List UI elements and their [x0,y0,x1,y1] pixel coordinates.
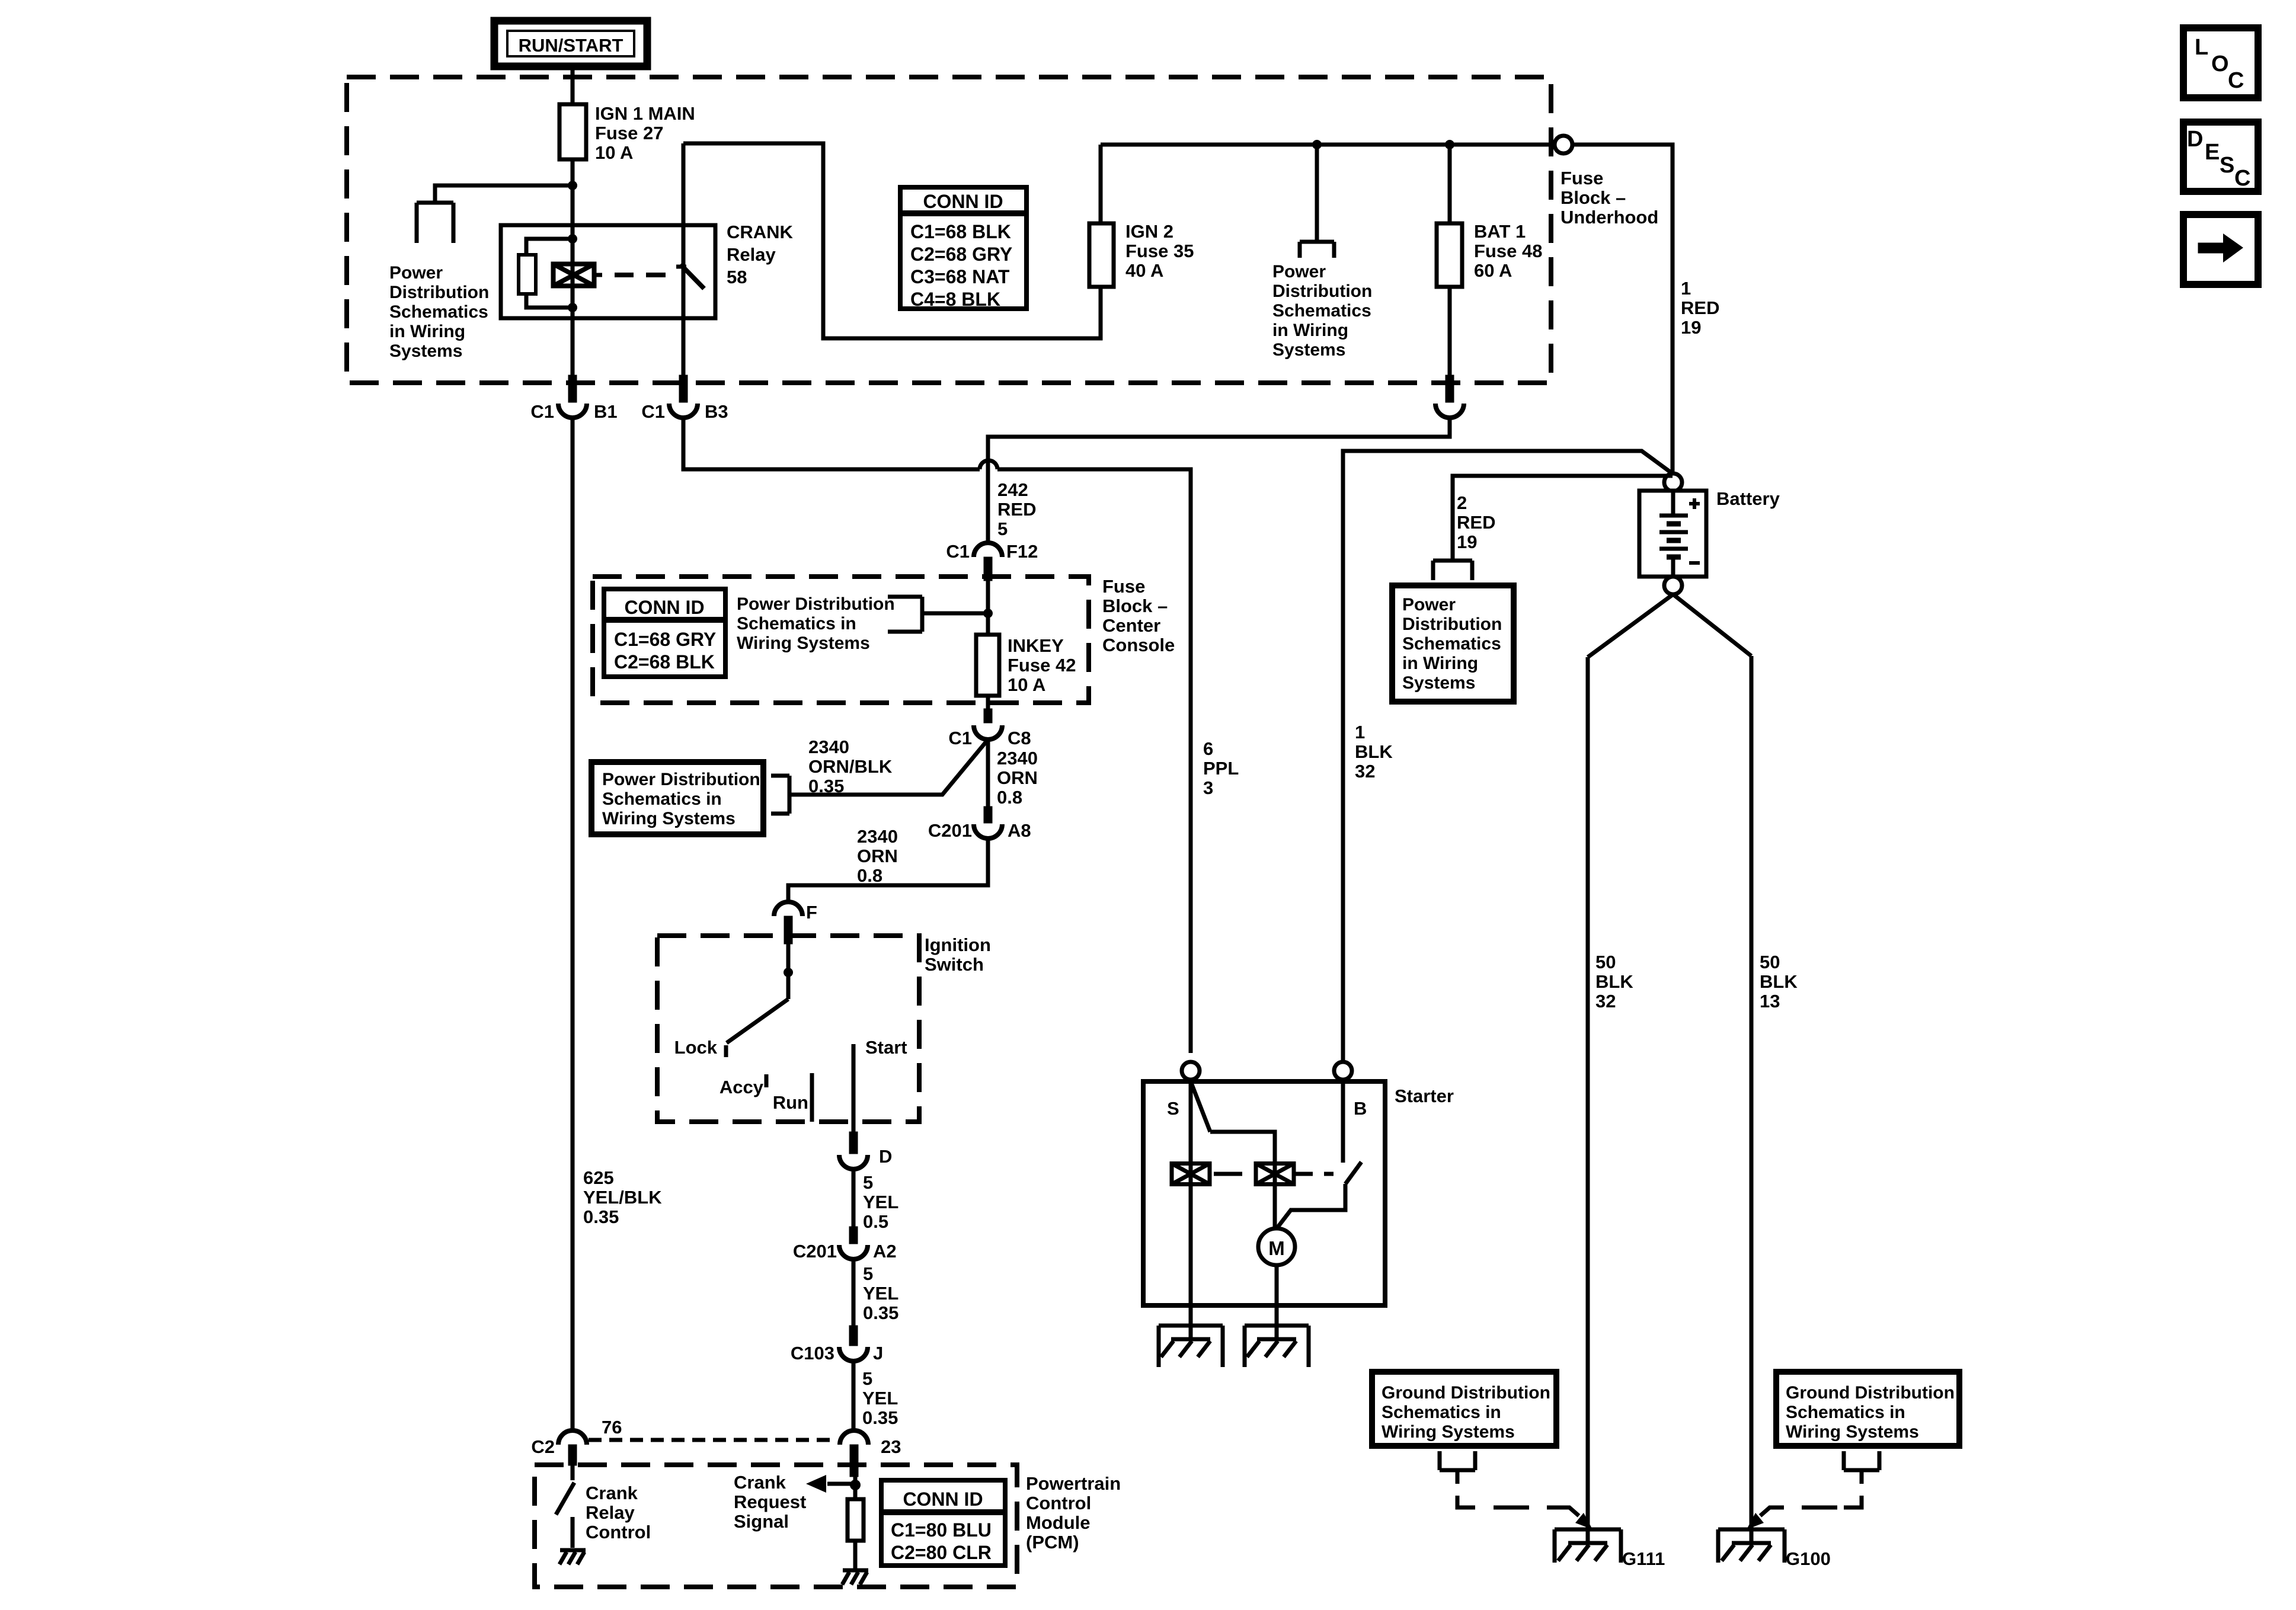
svg-text:13: 13 [1760,991,1780,1012]
svg-text:(PCM): (PCM) [1026,1532,1079,1553]
svg-text:2340: 2340 [857,826,898,847]
svg-text:BLK: BLK [1595,971,1633,992]
svg-text:Relay: Relay [586,1502,635,1523]
svg-text:E: E [2205,140,2220,165]
svg-text:in Wiring: in Wiring [1272,321,1348,340]
svg-text:0.8: 0.8 [857,865,882,886]
svg-text:PPL: PPL [1203,758,1239,779]
svg-text:D: D [879,1146,892,1167]
svg-text:58: 58 [727,267,747,287]
svg-text:CRANK: CRANK [727,222,794,242]
svg-text:Power: Power [1402,595,1456,614]
svg-text:Battery: Battery [1716,488,1780,509]
svg-text:6: 6 [1203,738,1213,759]
svg-text:L: L [2195,35,2208,60]
svg-text:0.8: 0.8 [997,787,1022,808]
svg-text:YEL: YEL [863,1283,898,1304]
svg-text:5: 5 [862,1368,872,1389]
svg-text:Distribution: Distribution [1272,281,1372,301]
svg-text:Fuse 27: Fuse 27 [595,123,663,143]
svg-text:Start: Start [865,1037,907,1058]
svg-text:YEL: YEL [862,1388,898,1409]
svg-text:C201: C201 [928,820,972,841]
svg-text:2340: 2340 [997,748,1038,769]
svg-text:S: S [2220,153,2234,178]
svg-text:CONN ID: CONN ID [923,191,1003,212]
svg-text:Schematics in: Schematics in [602,789,722,809]
svg-text:Schematics in: Schematics in [1786,1403,1905,1422]
svg-text:RED: RED [1681,297,1719,318]
svg-text:Switch: Switch [925,954,984,975]
svg-text:J: J [873,1343,883,1363]
svg-text:CONN ID: CONN ID [624,597,704,618]
svg-text:Ground Distribution: Ground Distribution [1382,1383,1550,1403]
svg-text:C1: C1 [948,728,972,748]
svg-text:ORN: ORN [857,846,898,866]
svg-text:0.35: 0.35 [862,1407,898,1428]
svg-text:Power: Power [389,263,443,283]
svg-text:C1: C1 [530,401,554,422]
svg-text:5: 5 [863,1172,873,1193]
svg-text:1: 1 [1355,722,1365,742]
svg-text:RED: RED [997,499,1036,520]
svg-text:RED: RED [1457,512,1495,533]
svg-text:B3: B3 [705,401,728,422]
svg-text:5: 5 [997,518,1008,539]
svg-text:40 A: 40 A [1125,260,1163,281]
svg-text:32: 32 [1595,991,1616,1012]
svg-text:0.35: 0.35 [863,1302,898,1323]
svg-text:Relay: Relay [727,244,776,265]
svg-text:3: 3 [1203,777,1213,798]
svg-text:Request: Request [734,1491,806,1512]
svg-text:C: C [2234,166,2250,191]
svg-text:Wiring Systems: Wiring Systems [1382,1422,1515,1442]
svg-text:0.5: 0.5 [863,1211,888,1232]
svg-text:60 A: 60 A [1474,260,1512,281]
svg-text:Schematics in: Schematics in [1382,1403,1501,1422]
svg-text:Fuse: Fuse [1560,168,1603,188]
svg-text:Signal: Signal [734,1511,789,1532]
svg-text:C1=80 BLU: C1=80 BLU [891,1519,992,1541]
svg-text:5: 5 [863,1263,873,1284]
svg-text:C103: C103 [791,1343,834,1363]
svg-text:ORN: ORN [997,767,1038,788]
svg-text:50: 50 [1595,952,1616,972]
svg-text:10 A: 10 A [595,142,633,163]
svg-text:Power: Power [1272,262,1326,281]
svg-text:10 A: 10 A [1008,674,1045,695]
svg-text:C8: C8 [1008,728,1031,748]
svg-text:Systems: Systems [1272,340,1345,360]
svg-text:625: 625 [583,1167,614,1188]
svg-text:Starter: Starter [1395,1086,1454,1106]
svg-text:Run: Run [773,1092,808,1113]
svg-text:C1: C1 [641,401,665,422]
svg-text:G111: G111 [1622,1548,1665,1569]
svg-text:76: 76 [602,1417,622,1438]
svg-text:0.35: 0.35 [808,776,844,796]
svg-text:O: O [2211,52,2229,76]
svg-text:Schematics: Schematics [389,302,488,322]
svg-text:B1: B1 [594,401,618,422]
svg-text:Console: Console [1102,635,1175,655]
svg-text:YEL/BLK: YEL/BLK [583,1187,662,1208]
svg-text:242: 242 [997,479,1028,500]
svg-text:23: 23 [881,1436,901,1457]
svg-text:32: 32 [1355,761,1375,782]
svg-text:YEL: YEL [863,1192,898,1212]
svg-text:G100: G100 [1786,1548,1831,1569]
svg-text:Ground Distribution: Ground Distribution [1786,1383,1955,1403]
svg-text:in Wiring: in Wiring [1402,654,1478,673]
svg-text:C1: C1 [946,541,970,562]
svg-text:2340: 2340 [808,737,849,757]
svg-text:C1=68 GRY: C1=68 GRY [614,629,716,650]
svg-text:Schematics in: Schematics in [737,614,856,633]
svg-text:Systems: Systems [1402,673,1475,693]
svg-text:BAT 1: BAT 1 [1474,221,1526,242]
svg-text:INKEY: INKEY [1008,635,1064,656]
svg-text:Control: Control [586,1522,651,1542]
svg-text:19: 19 [1681,317,1701,338]
svg-text:19: 19 [1457,532,1477,552]
svg-text:1: 1 [1681,278,1691,299]
svg-text:S: S [1167,1098,1179,1119]
svg-text:Center: Center [1102,615,1160,636]
svg-text:C4=8 BLK: C4=8 BLK [910,289,1000,310]
svg-text:Wiring Systems: Wiring Systems [1786,1422,1919,1442]
svg-text:Underhood: Underhood [1560,207,1658,228]
svg-text:C201: C201 [793,1241,837,1262]
svg-text:Powertrain: Powertrain [1026,1473,1121,1494]
svg-text:C2=80 CLR: C2=80 CLR [891,1542,992,1563]
svg-text:50: 50 [1760,952,1780,972]
svg-text:Distribution: Distribution [1402,614,1502,634]
svg-text:Fuse 35: Fuse 35 [1125,241,1194,261]
svg-text:Fuse 42: Fuse 42 [1008,655,1076,676]
svg-text:Schematics: Schematics [1402,634,1501,654]
svg-text:D: D [2187,127,2203,152]
svg-text:IGN 1 MAIN: IGN 1 MAIN [595,103,695,124]
svg-text:0.35: 0.35 [583,1206,619,1227]
svg-text:BLK: BLK [1355,741,1393,762]
svg-text:Systems: Systems [389,341,462,361]
svg-text:Module: Module [1026,1512,1091,1533]
svg-text:C1=68 BLK: C1=68 BLK [910,221,1011,242]
svg-text:C2: C2 [531,1436,555,1457]
svg-text:Schematics: Schematics [1272,301,1371,321]
svg-text:Control: Control [1026,1493,1091,1513]
svg-text:Block –: Block – [1560,187,1626,208]
svg-text:Accy: Accy [720,1077,764,1097]
svg-text:ORN/BLK: ORN/BLK [808,756,893,777]
svg-text:IGN 2: IGN 2 [1125,221,1173,242]
svg-text:in Wiring: in Wiring [389,322,465,341]
svg-text:RUN/START: RUN/START [519,35,623,56]
svg-text:Fuse 48: Fuse 48 [1474,241,1542,261]
svg-text:C: C [2228,68,2244,93]
svg-text:F12: F12 [1006,541,1038,562]
svg-text:M: M [1268,1237,1285,1259]
svg-text:C2=68 GRY: C2=68 GRY [910,244,1012,265]
svg-text:C2=68 BLK: C2=68 BLK [614,651,715,673]
svg-text:A2: A2 [873,1241,897,1262]
svg-text:Crank: Crank [734,1472,786,1493]
svg-text:Block –: Block – [1102,596,1168,616]
svg-text:Wiring Systems: Wiring Systems [602,809,736,828]
svg-text:Power Distribution: Power Distribution [602,770,760,789]
svg-text:Wiring Systems: Wiring Systems [737,633,870,653]
svg-text:Power Distribution: Power Distribution [737,594,895,614]
svg-text:Crank: Crank [586,1483,638,1503]
svg-text:Fuse: Fuse [1102,576,1145,597]
svg-text:A8: A8 [1008,820,1031,841]
svg-text:Lock: Lock [674,1037,718,1058]
svg-text:2: 2 [1457,492,1467,513]
svg-text:CONN ID: CONN ID [903,1489,983,1510]
svg-text:B: B [1354,1098,1367,1119]
svg-text:F: F [806,902,817,923]
svg-text:Distribution: Distribution [389,283,489,302]
svg-text:C3=68 NAT: C3=68 NAT [910,266,1010,287]
svg-text:Ignition: Ignition [925,934,991,955]
svg-text:BLK: BLK [1760,971,1798,992]
